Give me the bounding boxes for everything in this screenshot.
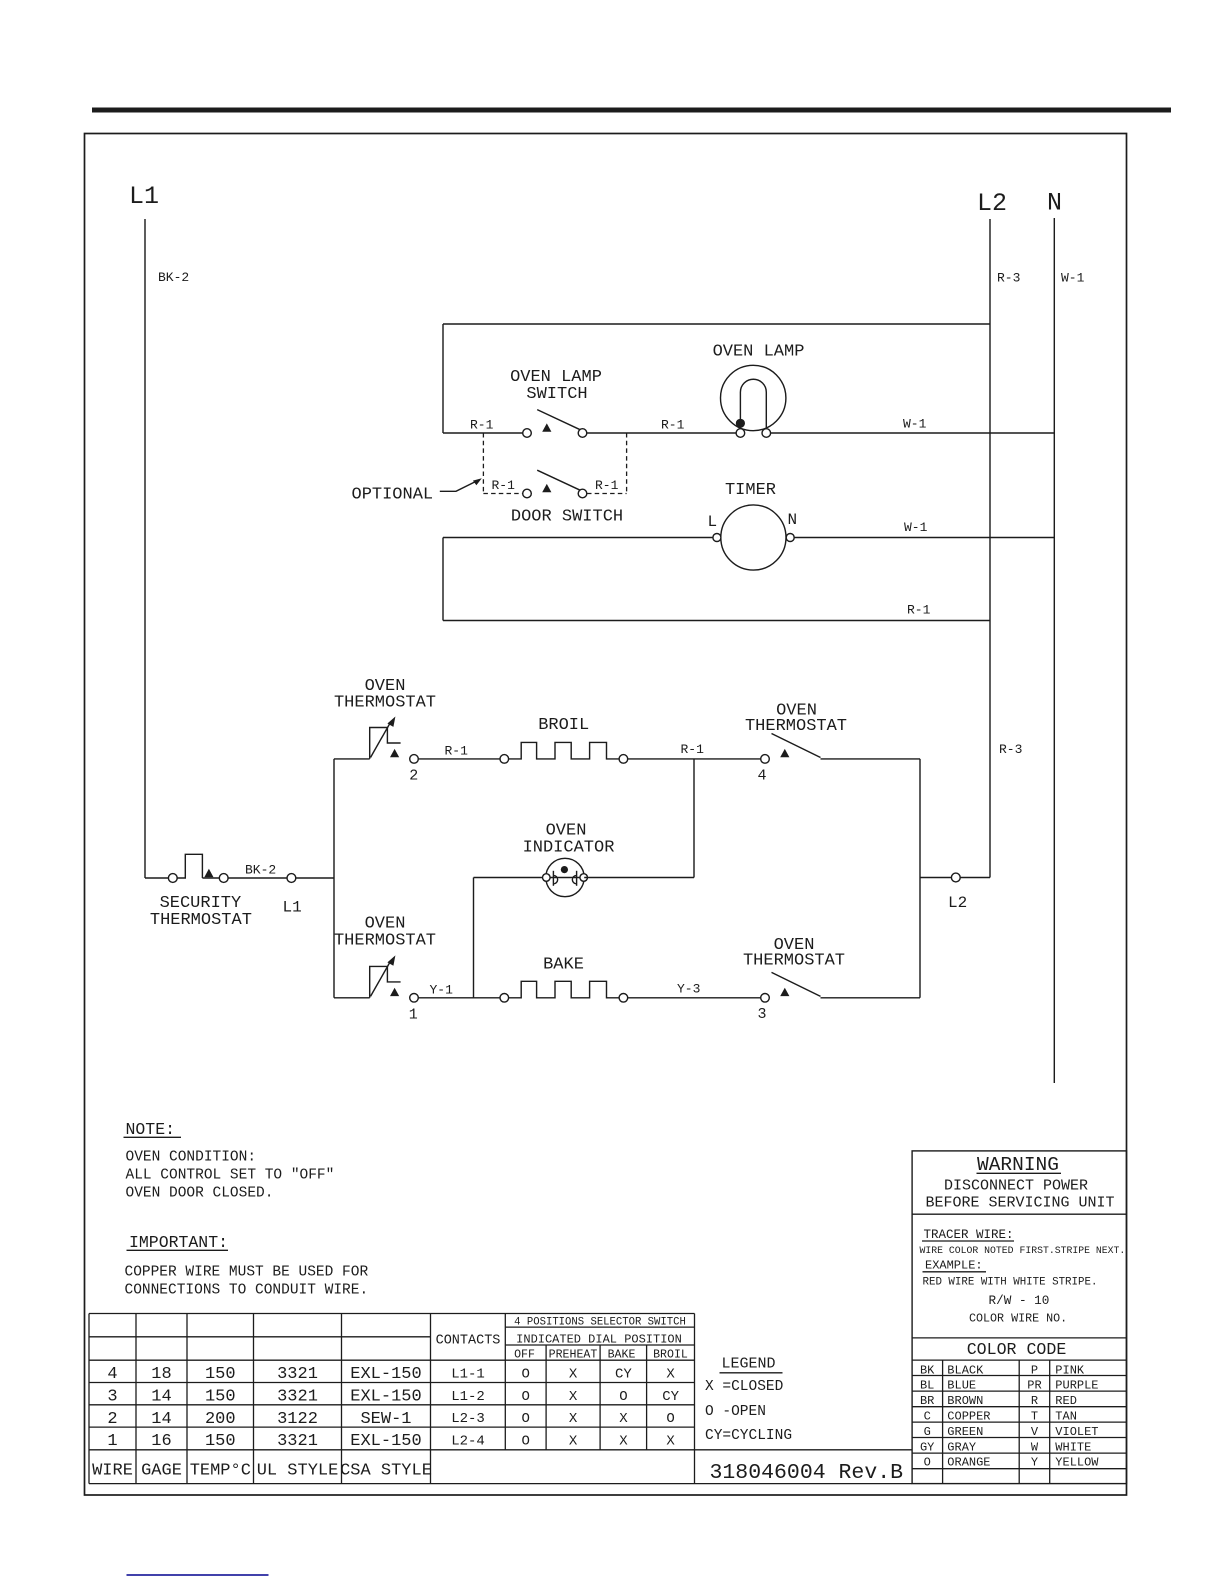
- wire to bake: [418, 997, 500, 999]
- node L1: [129, 182, 159, 211]
- important body: [125, 1265, 369, 1299]
- svg-text:L2-4: L2-4: [451, 1434, 485, 1450]
- note heading: [124, 1120, 182, 1139]
- svg-text:1: 1: [409, 1007, 418, 1024]
- svg-text:W-1: W-1: [1061, 271, 1085, 286]
- table row 1: [107, 1365, 675, 1384]
- wire contact 3 to right vertical: [821, 997, 921, 999]
- svg-text:BL: BL: [920, 1379, 934, 1393]
- svg-text:3321: 3321: [277, 1432, 318, 1451]
- svg-text:L2-3: L2-3: [451, 1411, 485, 1427]
- thermostat TH5 oven thermostat contact 3: [743, 936, 845, 1023]
- svg-text:3: 3: [107, 1388, 117, 1407]
- wire timer loop bottom to L2: [443, 620, 990, 622]
- svg-text:O: O: [521, 1434, 529, 1450]
- label OPTIONAL: [352, 486, 434, 505]
- svg-text:COPPER: COPPER: [947, 1410, 990, 1424]
- svg-text:VIOLET: VIOLET: [1055, 1425, 1098, 1439]
- svg-text:YELLOW: YELLOW: [1055, 1456, 1099, 1470]
- svg-text:BROWN: BROWN: [947, 1394, 983, 1408]
- svg-text:W-1: W-1: [904, 520, 928, 535]
- switch S2 door switch: [511, 470, 623, 526]
- wire terminal to L2 line: [960, 877, 990, 879]
- svg-text:EXAMPLE:: EXAMPLE:: [925, 1259, 983, 1273]
- svg-text:CY=CYCLING: CY=CYCLING: [705, 1428, 792, 1444]
- svg-text:W-1: W-1: [903, 417, 927, 432]
- svg-text:CONTACTS: CONTACTS: [436, 1334, 501, 1349]
- svg-text:THERMOSTAT: THERMOSTAT: [743, 952, 845, 971]
- color code rows: [920, 1363, 1099, 1469]
- wire L2 vertical: [989, 219, 991, 878]
- decorative blue line: [127, 1574, 269, 1576]
- wire timer loop left: [442, 538, 444, 621]
- svg-text:R-3: R-3: [999, 742, 1022, 757]
- svg-text:L2: L2: [977, 189, 1007, 218]
- table row 2: [107, 1388, 679, 1407]
- node L2: [977, 189, 1007, 218]
- svg-text:2: 2: [107, 1410, 117, 1429]
- svg-text:L2: L2: [948, 894, 967, 912]
- table header dial names: [514, 1349, 688, 1362]
- thermostat TH3 oven thermostat contact 4: [745, 702, 847, 785]
- lamp DS2 oven indicator: [523, 822, 615, 897]
- svg-text:THERMOSTAT: THERMOSTAT: [150, 911, 252, 930]
- svg-text:GRAY: GRAY: [947, 1440, 976, 1454]
- svg-text:N: N: [788, 511, 798, 529]
- wire N vertical: [1053, 218, 1055, 1083]
- wire dashed optional left: [482, 433, 484, 494]
- svg-text:PINK: PINK: [1055, 1363, 1085, 1377]
- svg-text:RED WIRE WITH WHITE STRIPE.: RED WIRE WITH WHITE STRIPE.: [923, 1277, 1098, 1289]
- svg-text:BR: BR: [920, 1394, 934, 1408]
- node N: [1047, 189, 1062, 218]
- label R-1: [492, 478, 516, 493]
- label R-3: [999, 742, 1022, 757]
- border frame: [85, 134, 1127, 1496]
- wire table grid: [89, 1314, 912, 1484]
- heater element BROIL: [500, 716, 628, 763]
- svg-text:L: L: [708, 513, 718, 531]
- svg-text:150: 150: [205, 1432, 236, 1451]
- wire lamp loop top: [443, 323, 990, 325]
- wire lamp row mid: [587, 432, 736, 434]
- wire bake to contact 3: [628, 997, 761, 999]
- svg-text:R-1: R-1: [681, 742, 705, 757]
- svg-text:L1: L1: [283, 899, 302, 917]
- svg-text:200: 200: [205, 1410, 236, 1429]
- label W-1: [903, 417, 927, 432]
- label R-1: [445, 744, 469, 759]
- svg-text:O -OPEN: O -OPEN: [705, 1404, 766, 1420]
- svg-text:ORANGE: ORANGE: [947, 1456, 990, 1470]
- svg-text:4 POSITIONS SELECTOR SWITCH: 4 POSITIONS SELECTOR SWITCH: [514, 1317, 686, 1329]
- wire L2 stub: [920, 877, 951, 879]
- wire indicator right: [584, 877, 694, 879]
- svg-text:150: 150: [205, 1365, 236, 1384]
- wire L1 vertical: [144, 219, 146, 878]
- svg-text:4: 4: [107, 1365, 117, 1384]
- svg-text:X: X: [569, 1411, 578, 1427]
- label R-1: [595, 478, 619, 493]
- svg-text:P: P: [1031, 1363, 1038, 1377]
- svg-text:BLUE: BLUE: [947, 1379, 976, 1393]
- svg-text:DISCONNECT POWER: DISCONNECT POWER: [944, 1178, 1088, 1195]
- svg-text:R-1: R-1: [595, 478, 619, 493]
- svg-text:LEGEND: LEGEND: [722, 1356, 776, 1373]
- wire contact 4 to right vertical: [821, 758, 921, 760]
- table header indicated dial position: [516, 1333, 682, 1347]
- svg-text:PREHEAT: PREHEAT: [549, 1349, 598, 1362]
- svg-text:CSA STYLE: CSA STYLE: [340, 1462, 432, 1481]
- svg-text:3122: 3122: [277, 1410, 318, 1429]
- wire security to terminal: [228, 877, 287, 879]
- label W-1: [904, 520, 928, 535]
- timer M1: [708, 481, 798, 570]
- svg-text:GREEN: GREEN: [947, 1425, 983, 1439]
- svg-text:16: 16: [151, 1432, 171, 1451]
- svg-text:150: 150: [205, 1388, 236, 1407]
- table row 4: [107, 1432, 675, 1451]
- svg-text:O: O: [521, 1389, 529, 1405]
- svg-text:DOOR SWITCH: DOOR SWITCH: [511, 508, 623, 527]
- svg-text:SWITCH: SWITCH: [526, 385, 587, 404]
- svg-text:OVEN DOOR CLOSED.: OVEN DOOR CLOSED.: [126, 1186, 274, 1202]
- svg-text:OFF: OFF: [514, 1349, 535, 1362]
- svg-text:R-1: R-1: [661, 418, 685, 433]
- svg-text:3321: 3321: [277, 1365, 318, 1384]
- svg-text:Y: Y: [1031, 1456, 1038, 1470]
- tracer wire text: [920, 1228, 1126, 1326]
- table footer row: [92, 1462, 432, 1481]
- svg-text:O: O: [521, 1367, 529, 1383]
- svg-text:WIRE: WIRE: [92, 1462, 133, 1481]
- svg-text:X: X: [666, 1434, 675, 1450]
- heater element BAKE: [500, 956, 628, 1003]
- svg-text:O: O: [619, 1389, 627, 1405]
- svg-text:O: O: [521, 1411, 529, 1427]
- terminal L1: [283, 874, 302, 917]
- svg-text:X =CLOSED: X =CLOSED: [705, 1379, 783, 1395]
- svg-text:X: X: [619, 1411, 628, 1427]
- note body: [126, 1150, 335, 1202]
- svg-text:BK-2: BK-2: [158, 270, 189, 285]
- svg-text:WHITE: WHITE: [1055, 1440, 1091, 1454]
- wire dashed door row left: [483, 493, 523, 495]
- label Y-3: [677, 982, 700, 997]
- svg-text:THERMOSTAT: THERMOSTAT: [745, 717, 847, 736]
- svg-text:R-3: R-3: [997, 271, 1020, 286]
- svg-text:TEMP°C: TEMP°C: [190, 1462, 251, 1481]
- svg-text:X: X: [569, 1389, 578, 1405]
- label BK-2: [245, 863, 276, 878]
- table header CONTACTS: [436, 1334, 501, 1349]
- svg-text:TIMER: TIMER: [725, 481, 776, 500]
- svg-text:R: R: [1031, 1394, 1038, 1408]
- svg-text:PR: PR: [1027, 1379, 1041, 1393]
- svg-text:G: G: [924, 1425, 931, 1439]
- svg-text:TRACER WIRE:: TRACER WIRE:: [924, 1228, 1014, 1242]
- wire lamp row right to N: [771, 432, 1055, 434]
- wire dashed optional right: [626, 433, 628, 494]
- svg-text:BAKE: BAKE: [543, 956, 584, 975]
- svg-text:TAN: TAN: [1055, 1410, 1077, 1424]
- svg-text:GAGE: GAGE: [141, 1462, 182, 1481]
- svg-text:ALL CONTROL SET TO "OFF": ALL CONTROL SET TO "OFF": [126, 1168, 335, 1184]
- svg-text:CONNECTIONS TO CONDUIT WIRE.: CONNECTIONS TO CONDUIT WIRE.: [125, 1283, 369, 1299]
- warning text: [925, 1154, 1114, 1212]
- wire top branch: [334, 758, 370, 760]
- wire lamp loop left: [442, 324, 444, 433]
- wire junction vertical broil to indicator: [693, 759, 695, 878]
- svg-text:318046004 Rev.B: 318046004 Rev.B: [710, 1461, 904, 1485]
- svg-text:L1-1: L1-1: [451, 1367, 485, 1383]
- svg-text:X: X: [666, 1367, 675, 1383]
- svg-text:OVEN LAMP: OVEN LAMP: [713, 343, 805, 362]
- svg-text:X: X: [619, 1434, 628, 1450]
- svg-text:R-1: R-1: [907, 603, 931, 618]
- table header 4 positions selector switch: [514, 1317, 686, 1329]
- svg-text:X: X: [569, 1434, 578, 1450]
- color code table: [912, 1340, 1126, 1484]
- svg-text:L1: L1: [129, 182, 159, 211]
- svg-text:COPPER WIRE MUST BE USED FOR: COPPER WIRE MUST BE USED FOR: [125, 1265, 369, 1281]
- svg-text:OPTIONAL: OPTIONAL: [352, 486, 434, 505]
- wire to broil: [418, 758, 500, 760]
- svg-text:W: W: [1031, 1440, 1039, 1454]
- svg-text:NOTE:: NOTE:: [126, 1120, 176, 1139]
- svg-text:CY: CY: [662, 1389, 679, 1405]
- wire broil to contact 4: [628, 758, 761, 760]
- svg-text:Y-3: Y-3: [677, 982, 700, 997]
- svg-text:THERMOSTAT: THERMOSTAT: [334, 932, 436, 951]
- svg-text:R-1: R-1: [470, 418, 494, 433]
- thermostat TH2 oven thermostat contact 2: [334, 677, 436, 785]
- legend: [705, 1356, 792, 1445]
- label R-3: [997, 271, 1020, 286]
- svg-text:18: 18: [151, 1365, 171, 1384]
- svg-text:COLOR WIRE NO.: COLOR WIRE NO.: [969, 1312, 1067, 1326]
- svg-text:CY: CY: [615, 1367, 632, 1383]
- leader arrow to dashed wire: [440, 478, 482, 491]
- svg-text:3321: 3321: [277, 1388, 318, 1407]
- label W-1: [1061, 271, 1085, 286]
- svg-text:BROIL: BROIL: [653, 1349, 688, 1362]
- svg-text:BK-2: BK-2: [245, 863, 276, 878]
- svg-text:EXL-150: EXL-150: [350, 1365, 421, 1384]
- svg-text:BK: BK: [920, 1363, 935, 1377]
- label BK-2: [158, 270, 189, 285]
- svg-text:R/W - 10: R/W - 10: [989, 1293, 1050, 1308]
- wire to branch point: [296, 877, 334, 879]
- svg-text:L1-2: L1-2: [451, 1389, 485, 1405]
- svg-text:O: O: [666, 1411, 674, 1427]
- wire bottom branch: [334, 997, 370, 999]
- label Y-1: [430, 983, 454, 998]
- svg-text:IMPORTANT:: IMPORTANT:: [129, 1233, 228, 1252]
- svg-text:14: 14: [151, 1388, 171, 1407]
- warning box: [912, 1151, 1126, 1484]
- svg-text:C: C: [924, 1410, 931, 1424]
- wire indicator left: [474, 877, 547, 879]
- svg-text:THERMOSTAT: THERMOSTAT: [334, 694, 436, 713]
- thermostat TH1 security thermostat: [145, 854, 252, 930]
- top rule: [92, 108, 1171, 113]
- svg-text:4: 4: [757, 768, 766, 785]
- svg-text:SEW-1: SEW-1: [360, 1410, 411, 1429]
- wire timer row left: [443, 537, 713, 539]
- wire indicator branch vertical: [473, 878, 475, 998]
- svg-text:PURPLE: PURPLE: [1055, 1379, 1098, 1393]
- lamp DS1 oven lamp: [713, 343, 805, 438]
- svg-text:3: 3: [757, 1006, 766, 1023]
- svg-text:EXL-150: EXL-150: [350, 1388, 421, 1407]
- switch S1 oven lamp switch: [510, 368, 602, 437]
- svg-text:INDICATED DIAL POSITION: INDICATED DIAL POSITION: [516, 1333, 682, 1347]
- important heading: [127, 1233, 229, 1252]
- svg-text:BLACK: BLACK: [947, 1363, 984, 1377]
- wire right vertical: [919, 759, 921, 998]
- svg-text:V: V: [1031, 1425, 1039, 1439]
- svg-text:1: 1: [107, 1432, 117, 1451]
- svg-text:BEFORE SERVICING UNIT: BEFORE SERVICING UNIT: [925, 1195, 1114, 1212]
- svg-text:O: O: [924, 1456, 931, 1470]
- svg-text:BROIL: BROIL: [538, 716, 589, 735]
- label R-1: [470, 418, 494, 433]
- svg-text:R-1: R-1: [445, 744, 469, 759]
- svg-text:Y-1: Y-1: [430, 983, 454, 998]
- svg-text:2: 2: [409, 768, 418, 785]
- wire branch vertical: [333, 759, 335, 998]
- svg-text:INDICATOR: INDICATOR: [523, 839, 615, 858]
- wire dashed door row right: [587, 493, 627, 495]
- table row 3: [107, 1410, 674, 1429]
- svg-text:RED: RED: [1055, 1394, 1077, 1408]
- svg-text:GY: GY: [920, 1440, 934, 1454]
- label R-1: [661, 418, 685, 433]
- svg-text:UL STYLE: UL STYLE: [257, 1462, 339, 1481]
- svg-text:COLOR CODE: COLOR CODE: [967, 1340, 1067, 1359]
- label R-1: [907, 603, 931, 618]
- terminal L2: [948, 873, 967, 912]
- svg-text:WIRE COLOR NOTED FIRST.STRIPE: WIRE COLOR NOTED FIRST.STRIPE NEXT.: [920, 1245, 1126, 1256]
- thermostat TH4 oven thermostat contact 1: [334, 915, 436, 1024]
- svg-text:BAKE: BAKE: [608, 1349, 636, 1362]
- svg-text:R-1: R-1: [492, 478, 516, 493]
- svg-text:EXL-150: EXL-150: [350, 1432, 421, 1451]
- wire lamp row left: [443, 432, 523, 434]
- svg-text:T: T: [1031, 1410, 1038, 1424]
- label R-1: [681, 742, 705, 757]
- part number 318046004 Rev.B: [710, 1461, 904, 1485]
- svg-text:14: 14: [151, 1410, 171, 1429]
- svg-text:OVEN CONDITION:: OVEN CONDITION:: [126, 1150, 257, 1166]
- wire timer row right to N: [794, 537, 1054, 539]
- svg-text:N: N: [1047, 189, 1062, 218]
- svg-text:X: X: [569, 1367, 578, 1383]
